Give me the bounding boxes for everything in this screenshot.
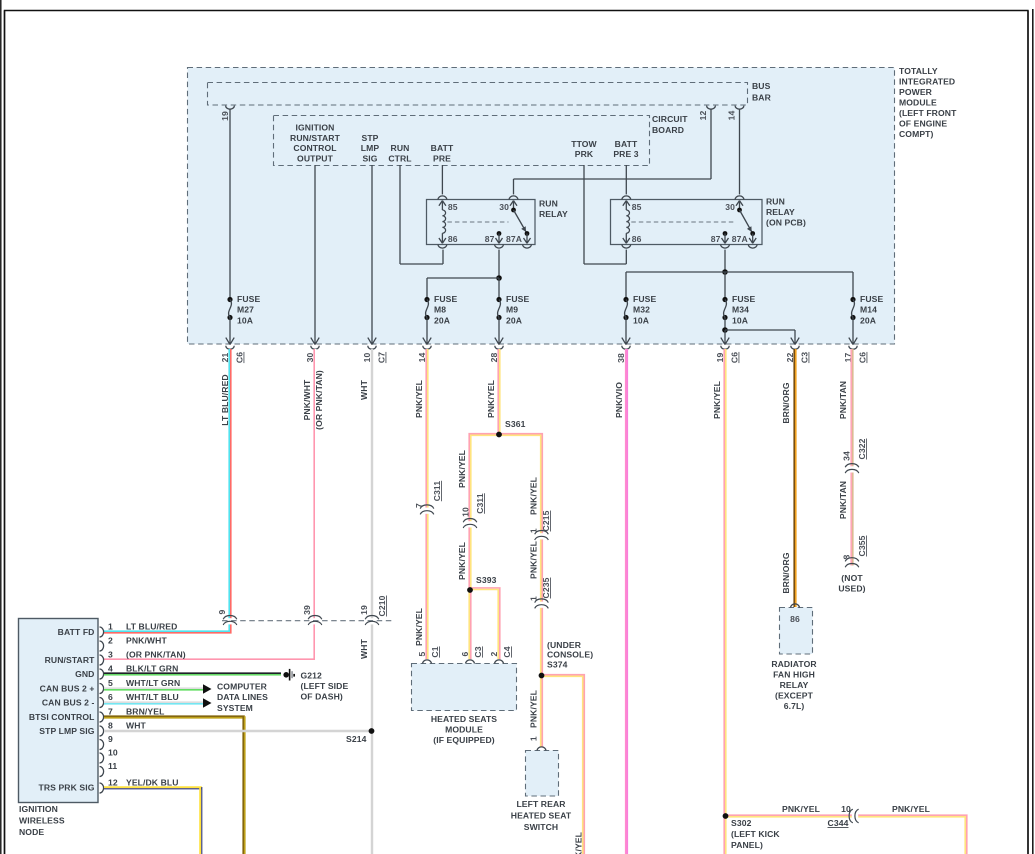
svg-text:DATA LINES: DATA LINES — [217, 692, 268, 702]
svg-text:TTOW: TTOW — [571, 139, 597, 149]
svg-text:30: 30 — [725, 202, 735, 212]
svg-text:WHT/LT BLU: WHT/LT BLU — [126, 692, 179, 702]
svg-text:CIRCUIT: CIRCUIT — [652, 114, 688, 124]
svg-text:CAN BUS 2 -: CAN BUS 2 - — [42, 698, 95, 708]
svg-text:6: 6 — [108, 692, 113, 702]
svg-text:S361: S361 — [505, 419, 526, 429]
svg-text:BAR: BAR — [752, 93, 772, 103]
svg-text:S374: S374 — [547, 659, 568, 669]
svg-text:85: 85 — [632, 202, 642, 212]
svg-text:BRN/ORG: BRN/ORG — [781, 382, 791, 423]
svg-text:OF DASH): OF DASH) — [301, 692, 343, 702]
svg-text:RUN: RUN — [766, 197, 785, 207]
svg-text:HEATED SEAT: HEATED SEAT — [511, 811, 572, 821]
svg-text:87A: 87A — [732, 234, 748, 244]
svg-text:YEL/DK BLU: YEL/DK BLU — [126, 777, 179, 787]
svg-text:CTRL: CTRL — [388, 153, 411, 163]
svg-text:87A: 87A — [506, 234, 522, 244]
svg-text:PNK/WHT: PNK/WHT — [126, 635, 167, 645]
svg-text:14: 14 — [727, 111, 737, 121]
svg-text:C7: C7 — [377, 352, 387, 363]
svg-text:WHT: WHT — [359, 638, 369, 659]
svg-text:TOTALLY: TOTALLY — [899, 66, 938, 76]
svg-text:STP: STP — [361, 133, 378, 143]
svg-text:PNK/YEL: PNK/YEL — [457, 450, 467, 488]
svg-text:RUN: RUN — [539, 199, 558, 209]
svg-text:SYSTEM: SYSTEM — [217, 703, 253, 713]
svg-text:PNK/YEL: PNK/YEL — [782, 804, 820, 814]
svg-text:30: 30 — [499, 202, 509, 212]
svg-text:RUN: RUN — [391, 143, 410, 153]
svg-text:S393: S393 — [476, 575, 497, 585]
svg-text:(UNDER: (UNDER — [547, 640, 582, 650]
svg-text:WHT/LT GRN: WHT/LT GRN — [126, 678, 180, 688]
svg-text:6.7L): 6.7L) — [784, 701, 805, 711]
svg-text:MODULE: MODULE — [445, 725, 483, 735]
svg-text:19: 19 — [359, 605, 369, 615]
svg-text:9: 9 — [217, 609, 227, 614]
svg-text:PRK: PRK — [575, 149, 594, 159]
svg-text:LT BLU/RED: LT BLU/RED — [220, 374, 230, 425]
svg-text:C215: C215 — [541, 510, 551, 531]
svg-text:BLK/LT GRN: BLK/LT GRN — [126, 663, 178, 673]
svg-text:10A: 10A — [633, 315, 649, 325]
svg-text:C6: C6 — [730, 352, 740, 363]
svg-text:1: 1 — [529, 596, 539, 601]
svg-text:20A: 20A — [860, 315, 876, 325]
svg-text:10: 10 — [108, 747, 118, 757]
svg-text:10: 10 — [461, 507, 471, 517]
svg-text:PNK/YEL: PNK/YEL — [486, 380, 496, 418]
svg-text:MODULE: MODULE — [899, 98, 937, 108]
svg-text:BTSI CONTROL: BTSI CONTROL — [29, 712, 95, 722]
svg-text:NODE: NODE — [19, 827, 44, 837]
svg-text:PNK/YEL: PNK/YEL — [457, 542, 467, 580]
svg-text:C3: C3 — [473, 646, 483, 657]
svg-text:IGNITION: IGNITION — [19, 804, 58, 814]
svg-text:12: 12 — [108, 777, 118, 787]
svg-text:LT BLU/RED: LT BLU/RED — [126, 621, 177, 631]
svg-text:BRN/ORG: BRN/ORG — [781, 552, 791, 593]
svg-text:LMP: LMP — [361, 143, 380, 153]
svg-text:C6: C6 — [235, 352, 245, 363]
svg-text:C311: C311 — [475, 493, 485, 514]
svg-text:PNK/YEL: PNK/YEL — [529, 690, 539, 728]
svg-text:C311: C311 — [432, 481, 442, 502]
svg-text:PNK/YEL: PNK/YEL — [574, 832, 584, 854]
svg-text:M9: M9 — [506, 305, 518, 315]
svg-text:RELAY: RELAY — [766, 207, 795, 217]
svg-text:COMPT): COMPT) — [899, 129, 934, 139]
svg-text:PNK/WHT: PNK/WHT — [302, 379, 312, 420]
svg-text:S214: S214 — [346, 734, 367, 744]
svg-text:BOARD: BOARD — [652, 125, 684, 135]
svg-text:M27: M27 — [237, 305, 254, 315]
svg-text:(LEFT KICK: (LEFT KICK — [731, 829, 780, 839]
svg-text:SWITCH: SWITCH — [524, 822, 559, 832]
svg-text:FUSE: FUSE — [506, 294, 529, 304]
svg-text:10: 10 — [362, 353, 372, 363]
svg-text:GND: GND — [75, 669, 94, 679]
svg-text:(NOT: (NOT — [841, 573, 863, 583]
svg-text:39: 39 — [302, 605, 312, 615]
svg-text:(IF EQUIPPED): (IF EQUIPPED) — [433, 735, 494, 745]
svg-text:OF ENGINE: OF ENGINE — [899, 119, 947, 129]
svg-text:WHT: WHT — [126, 720, 147, 730]
svg-text:INTEGRATED: INTEGRATED — [899, 77, 955, 87]
svg-text:FUSE: FUSE — [860, 294, 883, 304]
svg-text:PNK/TAN: PNK/TAN — [838, 481, 848, 519]
svg-text:86: 86 — [448, 234, 458, 244]
svg-text:C4: C4 — [502, 646, 512, 657]
svg-text:86: 86 — [632, 234, 642, 244]
svg-text:5: 5 — [417, 651, 427, 656]
svg-text:M32: M32 — [633, 305, 650, 315]
svg-text:4: 4 — [108, 663, 113, 673]
svg-text:POWER: POWER — [899, 87, 933, 97]
svg-text:PNK/YEL: PNK/YEL — [414, 380, 424, 418]
svg-text:PNK/YEL: PNK/YEL — [529, 477, 539, 515]
svg-text:C6: C6 — [858, 352, 868, 363]
svg-text:FUSE: FUSE — [732, 294, 755, 304]
svg-text:PNK/YEL: PNK/YEL — [414, 608, 424, 646]
svg-text:WHT: WHT — [359, 379, 369, 400]
svg-text:C1: C1 — [430, 646, 440, 657]
svg-text:C210: C210 — [377, 595, 387, 616]
svg-text:C322: C322 — [857, 438, 867, 459]
svg-text:FUSE: FUSE — [633, 294, 656, 304]
svg-text:M34: M34 — [732, 305, 749, 315]
svg-text:3: 3 — [108, 649, 113, 659]
svg-text:85: 85 — [448, 202, 458, 212]
svg-text:FUSE: FUSE — [434, 294, 457, 304]
svg-text:BATT FD: BATT FD — [58, 627, 95, 637]
svg-text:PNK/YEL: PNK/YEL — [712, 381, 722, 419]
svg-text:C344: C344 — [828, 818, 849, 828]
svg-text:PNK/TAN: PNK/TAN — [838, 381, 848, 419]
svg-text:10A: 10A — [732, 315, 748, 325]
svg-text:WIRELESS: WIRELESS — [19, 816, 65, 826]
svg-text:USED): USED) — [838, 584, 865, 594]
svg-text:HEATED SEATS: HEATED SEATS — [431, 714, 497, 724]
svg-text:FUSE: FUSE — [237, 294, 260, 304]
svg-text:(ON PCB): (ON PCB) — [766, 218, 806, 228]
svg-text:2: 2 — [108, 635, 113, 645]
svg-text:10A: 10A — [237, 315, 253, 325]
svg-text:M8: M8 — [434, 305, 446, 315]
svg-text:1: 1 — [108, 621, 113, 631]
svg-text:G212: G212 — [301, 671, 323, 681]
svg-text:RADIATOR: RADIATOR — [771, 659, 817, 669]
svg-text:FAN HIGH: FAN HIGH — [773, 670, 815, 680]
svg-text:CONTROL: CONTROL — [293, 143, 336, 153]
svg-text:PRE: PRE — [433, 153, 451, 163]
svg-text:LEFT REAR: LEFT REAR — [516, 799, 566, 809]
svg-text:10: 10 — [841, 804, 851, 814]
svg-text:1: 1 — [529, 736, 539, 741]
svg-text:RELAY: RELAY — [780, 680, 809, 690]
svg-text:STP LMP SIG: STP LMP SIG — [39, 726, 94, 736]
svg-text:RUN/START: RUN/START — [45, 655, 96, 665]
svg-text:PNK/YEL: PNK/YEL — [892, 804, 930, 814]
svg-text:RUN/START: RUN/START — [290, 133, 341, 143]
svg-text:COMPUTER: COMPUTER — [217, 682, 268, 692]
svg-text:BATT: BATT — [431, 143, 454, 153]
svg-text:CONSOLE): CONSOLE) — [547, 650, 593, 660]
svg-text:2: 2 — [489, 651, 499, 656]
svg-text:9: 9 — [108, 734, 113, 744]
svg-text:S302: S302 — [731, 818, 752, 828]
svg-text:(EXCEPT: (EXCEPT — [775, 691, 814, 701]
svg-text:12: 12 — [698, 111, 708, 121]
svg-text:RELAY: RELAY — [539, 209, 568, 219]
svg-text:C235: C235 — [541, 577, 551, 598]
svg-text:87: 87 — [485, 234, 495, 244]
svg-text:20A: 20A — [506, 315, 522, 325]
svg-text:SIG: SIG — [362, 153, 377, 163]
svg-text:7: 7 — [108, 706, 113, 716]
svg-text:CAN BUS 2 +: CAN BUS 2 + — [40, 684, 95, 694]
svg-text:19: 19 — [220, 111, 230, 121]
svg-text:11: 11 — [108, 761, 117, 771]
svg-text:87: 87 — [711, 234, 721, 244]
svg-text:BUS: BUS — [752, 81, 771, 91]
svg-text:OUTPUT: OUTPUT — [297, 153, 334, 163]
svg-text:20A: 20A — [434, 315, 450, 325]
svg-text:PRE 3: PRE 3 — [613, 149, 638, 159]
svg-text:PANEL): PANEL) — [731, 840, 763, 850]
svg-text:(LEFT SIDE: (LEFT SIDE — [301, 681, 349, 691]
svg-text:7: 7 — [414, 503, 424, 508]
svg-text:86: 86 — [790, 614, 800, 624]
svg-text:BRN/YEL: BRN/YEL — [126, 706, 164, 716]
svg-text:PNK/YEL: PNK/YEL — [529, 541, 539, 579]
svg-text:IGNITION: IGNITION — [296, 123, 335, 133]
svg-text:(LEFT FRONT: (LEFT FRONT — [899, 108, 957, 118]
svg-text:38: 38 — [616, 353, 626, 363]
svg-text:5: 5 — [108, 678, 113, 688]
svg-text:C3: C3 — [800, 352, 810, 363]
svg-text:34: 34 — [842, 451, 852, 461]
svg-text:M14: M14 — [860, 305, 877, 315]
svg-text:8: 8 — [108, 720, 113, 730]
svg-text:C355: C355 — [857, 535, 867, 556]
svg-text:6: 6 — [460, 651, 470, 656]
svg-text:(OR PNK/TAN): (OR PNK/TAN) — [314, 370, 324, 430]
svg-text:8: 8 — [842, 554, 852, 559]
svg-text:1: 1 — [529, 528, 539, 533]
svg-text:BATT: BATT — [615, 139, 638, 149]
svg-text:TRS PRK SIG: TRS PRK SIG — [38, 783, 94, 793]
svg-text:PNK/VIO: PNK/VIO — [614, 382, 624, 418]
svg-text:(OR PNK/TAN): (OR PNK/TAN) — [126, 649, 186, 659]
